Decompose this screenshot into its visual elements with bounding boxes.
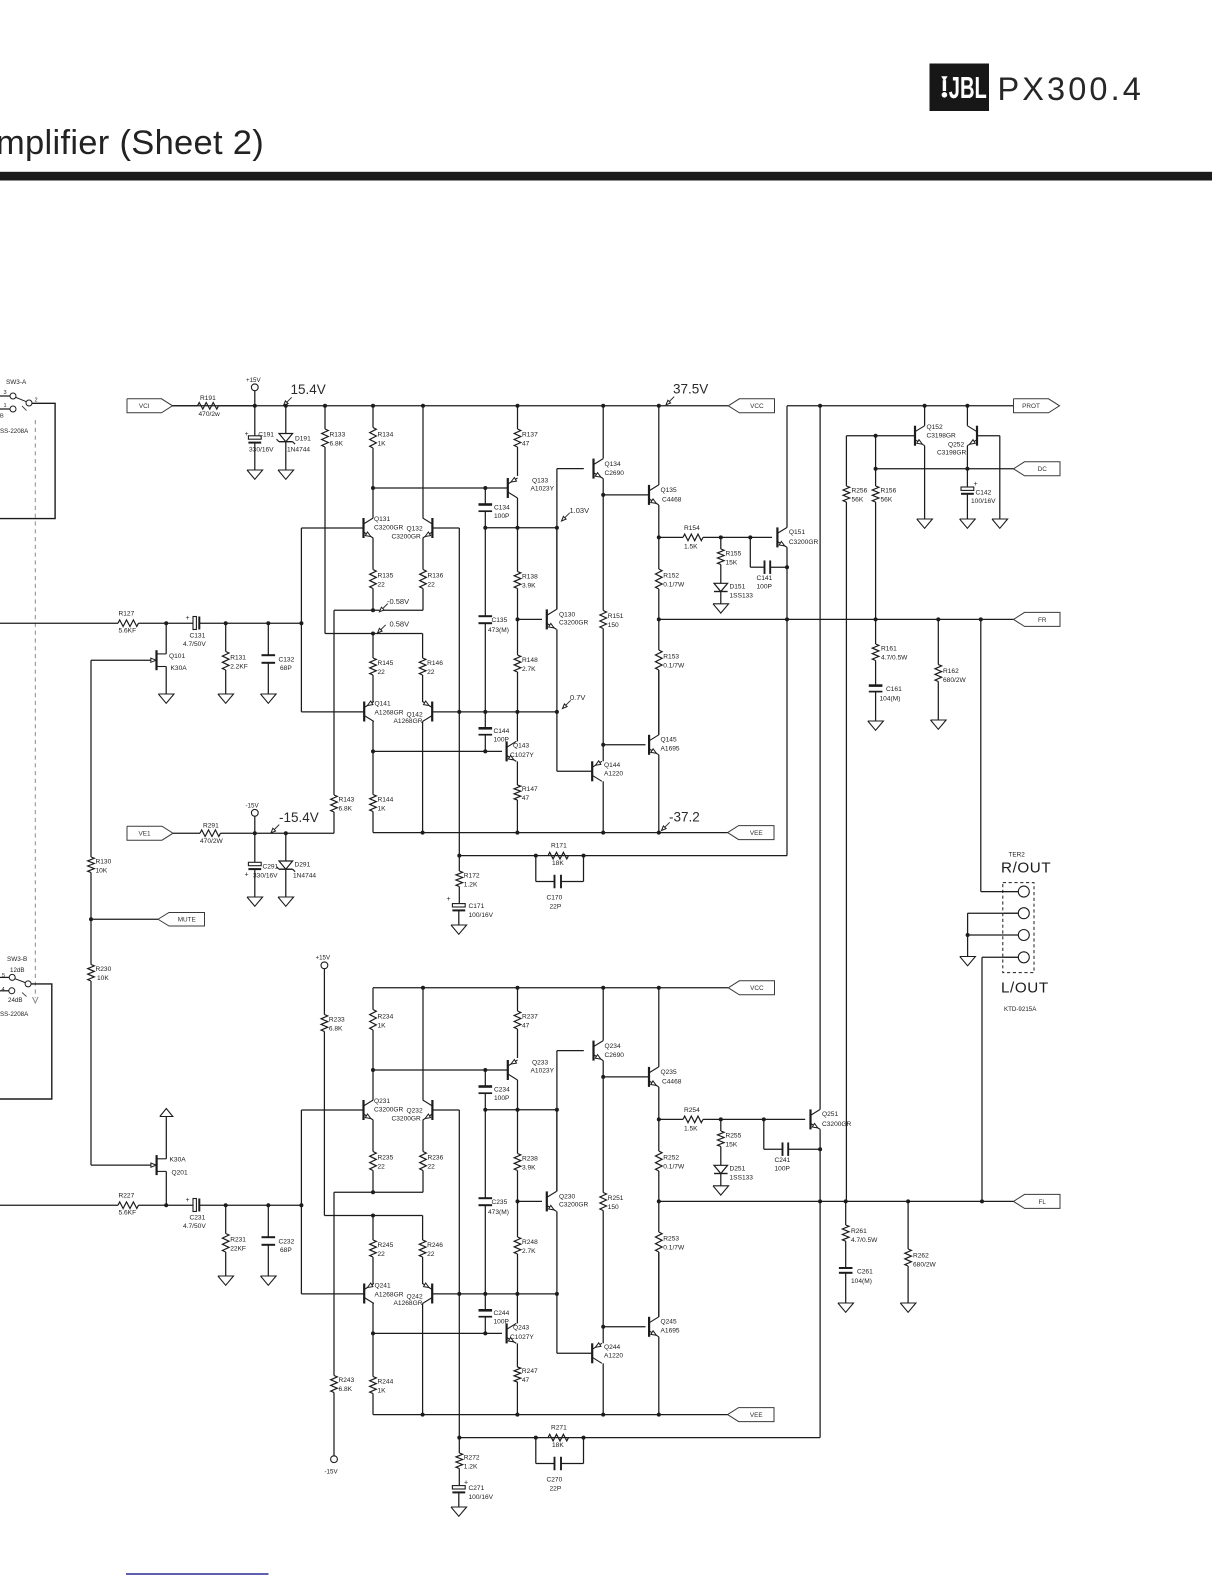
ground C261 xyxy=(838,1303,854,1312)
svg-text:+: + xyxy=(245,872,249,879)
svg-text:R227: R227 xyxy=(119,1193,135,1200)
svg-text:Q152: Q152 xyxy=(927,424,943,431)
wire Q152 collector xyxy=(924,406,926,426)
svg-text:D191: D191 xyxy=(295,436,311,443)
svg-text:+: + xyxy=(245,431,249,438)
svg-text:A1023Y: A1023Y xyxy=(531,1068,555,1075)
wire Q234 collector xyxy=(602,988,604,1041)
resistor R144 xyxy=(370,751,394,832)
capacitor C261 xyxy=(839,1268,873,1303)
svg-text:22: 22 xyxy=(428,582,436,589)
node Q132 collector at rail xyxy=(421,404,425,408)
wire base row mid xyxy=(432,711,557,713)
svg-text:DC: DC xyxy=(1038,466,1048,473)
wire Q135 collector xyxy=(658,406,660,485)
svg-text:Q144: Q144 xyxy=(604,762,620,769)
node Q245 emit at VEE xyxy=(657,1413,661,1417)
wire Q144 base xyxy=(557,770,592,772)
svg-text:R238: R238 xyxy=(522,1156,538,1163)
resistor R147 xyxy=(514,761,538,832)
svg-text:0.1/7W: 0.1/7W xyxy=(663,582,685,589)
svg-text:+15V: +15V xyxy=(246,377,261,384)
transistor Q235 xyxy=(649,1067,682,1087)
node C234 top xyxy=(483,1068,487,1072)
node Q141 collector / R144 xyxy=(371,749,375,753)
transistor Q230 xyxy=(547,1191,589,1211)
footer blue mark xyxy=(126,1573,269,1575)
svg-text:1: 1 xyxy=(4,403,7,409)
svg-text:R148: R148 xyxy=(522,657,538,664)
svg-text:C132: C132 xyxy=(279,657,295,664)
svg-text:1K: 1K xyxy=(378,806,387,813)
net DC arrow xyxy=(1014,462,1061,476)
svg-text:18K: 18K xyxy=(552,1442,564,1449)
svg-text:C144: C144 xyxy=(494,728,510,735)
svg-text:100/16V: 100/16V xyxy=(469,1494,494,1501)
node R248 bottom xyxy=(515,1292,519,1296)
wire emitter tie row xyxy=(334,1191,423,1193)
svg-text:VE1: VE1 xyxy=(138,831,151,838)
svg-text:1K: 1K xyxy=(378,1022,387,1029)
svg-text:C244: C244 xyxy=(494,1310,510,1317)
svg-text:47: 47 xyxy=(522,795,530,802)
node C244 top xyxy=(483,1292,487,1296)
svg-text:22: 22 xyxy=(378,1164,386,1171)
node R247 at VEE xyxy=(515,1413,519,1417)
svg-text:VEE: VEE xyxy=(750,1412,763,1419)
svg-text:R137: R137 xyxy=(522,432,538,439)
svg-text:47: 47 xyxy=(522,441,530,448)
capacitor C244 xyxy=(479,1294,510,1334)
net VE1 arrow xyxy=(127,826,173,840)
svg-text:47: 47 xyxy=(522,1377,530,1384)
svg-text:1.5K: 1.5K xyxy=(684,544,698,551)
resistor R130 xyxy=(88,660,112,919)
resistor R235 xyxy=(370,1120,394,1192)
arrow Q201 drain up xyxy=(160,1109,173,1117)
svg-text:C3200GR: C3200GR xyxy=(559,1202,589,1209)
node D291 top xyxy=(284,831,288,835)
resistor R244 xyxy=(370,1333,394,1414)
annotation -15.4V xyxy=(271,810,319,833)
resistor R131 xyxy=(222,623,247,694)
wire Q241 base xyxy=(301,1293,364,1295)
node Q241 collector / R244 xyxy=(371,1331,375,1335)
node C234 bottom xyxy=(483,1108,487,1112)
wire Q235 emitter xyxy=(658,1087,660,1120)
svg-text:680/2W: 680/2W xyxy=(913,1262,937,1269)
node output mid xyxy=(657,617,661,621)
wire Q230 emitter xyxy=(556,1211,558,1353)
JBL logo box xyxy=(930,64,990,112)
wire Q133 collector xyxy=(517,498,519,528)
svg-text:56K: 56K xyxy=(852,497,864,504)
svg-text:C271: C271 xyxy=(469,1485,485,1492)
wire to Q234 base xyxy=(556,1051,558,1192)
node Q233 coll / row xyxy=(516,1108,520,1112)
resistor R143 xyxy=(331,795,355,833)
wire Q244 base xyxy=(557,1352,592,1354)
wire Q244 collector xyxy=(602,1363,604,1414)
svg-text:-15V: -15V xyxy=(325,1469,339,1476)
node R234 bottom / Q231 collector xyxy=(371,1068,375,1072)
svg-text:2.7K: 2.7K xyxy=(522,666,536,673)
node Q251 emit at output xyxy=(818,1199,822,1203)
capacitor C170 xyxy=(536,856,584,911)
svg-text:R243: R243 xyxy=(339,1377,355,1384)
wire base column xyxy=(300,1110,302,1294)
node R156 top xyxy=(874,434,878,438)
wire Q235 collector xyxy=(658,988,660,1067)
resistor R237 xyxy=(514,988,538,1058)
svg-text:R191: R191 xyxy=(200,395,216,402)
svg-text:A1695: A1695 xyxy=(661,746,680,753)
svg-text:5: 5 xyxy=(2,973,5,979)
svg-text:Q243: Q243 xyxy=(513,1325,529,1332)
header rule bar xyxy=(0,172,1212,181)
svg-text:R291: R291 xyxy=(203,823,219,830)
resistor R138 xyxy=(514,528,538,620)
node VAS row right xyxy=(555,526,559,530)
text SS-2208A (SW3-A) xyxy=(0,428,29,435)
svg-text:R234: R234 xyxy=(378,1013,394,1020)
connector pin 3 xyxy=(1004,930,1029,941)
svg-text:R253: R253 xyxy=(663,1236,679,1243)
node Q144 emitter / R151 xyxy=(601,743,605,747)
svg-text:15K: 15K xyxy=(726,1141,738,1148)
wire D291 to gnd xyxy=(285,869,287,897)
text KTD-9215A xyxy=(1004,1006,1037,1013)
svg-text:A1268GR: A1268GR xyxy=(394,718,423,725)
node Q242 collector at VEE xyxy=(421,1413,425,1417)
ground C132 xyxy=(261,694,277,703)
svg-text:470/2W: 470/2W xyxy=(200,838,224,845)
capacitor C144 xyxy=(479,712,510,752)
svg-text:A1023Y: A1023Y xyxy=(531,486,555,493)
svg-text:C1027Y: C1027Y xyxy=(510,752,534,759)
resistor R152 xyxy=(656,537,685,619)
wire Q141 collector xyxy=(372,722,374,752)
svg-text:SS-2208A: SS-2208A xyxy=(0,428,29,435)
svg-text:C142: C142 xyxy=(976,490,992,497)
resistor R156 xyxy=(872,436,896,620)
svg-text:K30A: K30A xyxy=(170,1157,187,1164)
svg-text:Q245: Q245 xyxy=(661,1319,677,1326)
ground D291 xyxy=(278,897,294,906)
ground D191 xyxy=(278,470,294,479)
node Q234 coll at rail xyxy=(601,986,605,990)
node C141 left top xyxy=(748,535,752,539)
svg-text:1.2K: 1.2K xyxy=(464,881,478,888)
svg-text:D291: D291 xyxy=(295,862,311,869)
svg-text:R248: R248 xyxy=(522,1239,538,1246)
capacitor C132 xyxy=(262,623,295,694)
svg-text:C3200GR: C3200GR xyxy=(392,534,422,541)
zener D291 xyxy=(277,861,317,880)
node Q145 emit at VEE xyxy=(657,831,661,835)
svg-text:R155: R155 xyxy=(726,550,742,557)
wire Q134 base h xyxy=(557,468,584,470)
node C270 right xyxy=(582,1436,586,1440)
capacitor C241 xyxy=(764,1119,820,1172)
svg-text:Q234: Q234 xyxy=(605,1043,621,1050)
net FR arrow xyxy=(1014,612,1061,626)
transistor Q142 xyxy=(394,701,433,725)
node R134 top xyxy=(371,404,375,408)
transistor Q251 xyxy=(811,1109,852,1129)
svg-text:C4468: C4468 xyxy=(662,497,682,504)
transistor Q242 xyxy=(394,1283,433,1307)
wire Q230 base xyxy=(518,1200,543,1202)
svg-text:R172: R172 xyxy=(464,872,480,879)
resistor R137 xyxy=(514,406,538,476)
svg-text:R130: R130 xyxy=(96,859,112,866)
switch SW3-A xyxy=(0,379,38,420)
svg-text:Q251: Q251 xyxy=(822,1111,838,1118)
transistor Q244 xyxy=(592,1343,623,1364)
text SS-2208A (SW3-B) xyxy=(0,1011,29,1018)
svg-text:R245: R245 xyxy=(378,1242,394,1249)
ground C291 xyxy=(247,897,263,906)
wire Q151 collector xyxy=(786,406,788,528)
transistor Q145 xyxy=(649,735,680,755)
capacitor C235 xyxy=(479,1110,509,1294)
box: left circuit block 2 (partial) xyxy=(0,984,52,1099)
svg-text:JBL: JBL xyxy=(949,72,987,105)
svg-text:R162: R162 xyxy=(943,668,959,675)
svg-text:10K: 10K xyxy=(97,975,109,982)
svg-text:6.8K: 6.8K xyxy=(329,1026,343,1033)
resistor R133 xyxy=(322,406,346,634)
wire VAS row xyxy=(485,1109,557,1111)
resistor R146 xyxy=(419,634,443,703)
ground R162 xyxy=(931,720,947,729)
transistor Q245 xyxy=(649,1317,680,1337)
svg-text:L/OUT: L/OUT xyxy=(1001,980,1049,997)
capacitor C231 xyxy=(183,1197,206,1230)
wire Q101 gate xyxy=(91,659,151,661)
svg-text:R236: R236 xyxy=(428,1155,444,1162)
resistor R191 xyxy=(173,395,255,418)
node C241 right xyxy=(818,1147,822,1151)
wire Q251 emitter xyxy=(819,1129,821,1437)
svg-text:R138: R138 xyxy=(522,574,538,581)
wire pin4 to FL xyxy=(981,957,983,1201)
svg-text:Q131: Q131 xyxy=(374,516,390,523)
svg-text:R230: R230 xyxy=(96,966,112,973)
node C270 left xyxy=(534,1436,538,1440)
svg-text:C135: C135 xyxy=(492,617,508,624)
node R137 top xyxy=(516,404,520,408)
resistor R153 xyxy=(656,619,685,734)
node Q232 collector at rail xyxy=(421,986,425,990)
svg-text:22P: 22P xyxy=(550,1486,562,1493)
svg-text:1.5K: 1.5K xyxy=(684,1126,698,1133)
node input to bases xyxy=(299,621,303,625)
wire to Q134 base xyxy=(556,469,558,610)
svg-text:R136: R136 xyxy=(428,573,444,580)
node R148 bottom xyxy=(515,710,519,714)
svg-text:R146: R146 xyxy=(427,660,443,667)
svg-text:A1268GR: A1268GR xyxy=(375,1292,404,1299)
wire Q145 emitter xyxy=(658,755,660,833)
node FR pick xyxy=(979,617,983,621)
wire Q232 base to feedback column xyxy=(432,1109,459,1111)
svg-text:PROT: PROT xyxy=(1022,403,1040,410)
node R155 top xyxy=(719,535,723,539)
svg-text:5.6KF: 5.6KF xyxy=(119,1210,137,1217)
node R262 tap at FL xyxy=(906,1199,910,1203)
net MUTE arrow xyxy=(158,913,205,927)
wire Q235 base row xyxy=(603,1076,649,1078)
ground C171 xyxy=(451,925,467,934)
wire tail to R143 xyxy=(333,610,335,795)
resistor R247 xyxy=(514,1343,538,1414)
svg-text:Q235: Q235 xyxy=(661,1069,677,1076)
resistor R151 xyxy=(600,495,624,745)
svg-text:3.9K: 3.9K xyxy=(522,583,536,590)
node input to bases xyxy=(299,1203,303,1207)
node Q135 coll at rail xyxy=(657,404,661,408)
svg-text:R145: R145 xyxy=(378,660,394,667)
wire D251 to gnd xyxy=(720,1174,722,1186)
svg-text:22: 22 xyxy=(378,1251,386,1258)
node 0.7V xyxy=(555,710,559,714)
wire bias row xyxy=(325,633,423,635)
svg-text:R256: R256 xyxy=(852,488,868,495)
svg-text:C3200GR: C3200GR xyxy=(559,620,589,627)
node R156 at DC row xyxy=(874,467,878,471)
wire Q132 collector xyxy=(422,406,424,518)
svg-text:C3200GR: C3200GR xyxy=(789,539,819,546)
resistor R251 xyxy=(600,1077,624,1327)
svg-text:Q151: Q151 xyxy=(789,529,805,536)
node Q133 coll / row xyxy=(516,526,520,530)
transistor Q132 xyxy=(392,518,433,541)
capacitor C171 xyxy=(447,896,494,925)
transistor Q133 xyxy=(508,478,555,499)
svg-text:C3198GR: C3198GR xyxy=(927,433,957,440)
svg-text:Q231: Q231 xyxy=(374,1098,390,1105)
node C134 top xyxy=(483,486,487,490)
ground C232 xyxy=(261,1276,277,1285)
wire Q201 source xyxy=(165,1171,167,1204)
svg-text:100P: 100P xyxy=(494,513,510,520)
wire base column xyxy=(300,528,302,712)
capacitor C135 xyxy=(479,528,509,712)
svg-text:VEE: VEE xyxy=(750,830,763,837)
svg-text:R247: R247 xyxy=(522,1368,538,1375)
svg-text:C161: C161 xyxy=(886,686,902,693)
node D191 top xyxy=(284,404,288,408)
wire pin1 horizontal xyxy=(981,891,1019,893)
resistor R262 xyxy=(905,1201,937,1303)
svg-text:D151: D151 xyxy=(730,584,746,591)
ground R262 xyxy=(900,1303,916,1312)
svg-text:Q133: Q133 xyxy=(532,478,548,485)
node feedback at Q142 base xyxy=(457,710,461,714)
capacitor C234 xyxy=(479,1070,511,1110)
wire pin2 down xyxy=(967,913,969,956)
svg-text:R231: R231 xyxy=(230,1236,246,1243)
wire VAS row xyxy=(485,527,557,529)
svg-text:1.2K: 1.2K xyxy=(464,1463,478,1470)
resistor R155 xyxy=(718,537,742,583)
wire Q230 collector xyxy=(556,1110,558,1192)
wire Q142 collector to VEE xyxy=(422,722,424,833)
svg-text:R161: R161 xyxy=(881,646,897,653)
svg-text:C3200GR: C3200GR xyxy=(822,1121,852,1128)
capacitor C191 xyxy=(245,406,275,470)
svg-text:R154: R154 xyxy=(684,525,700,532)
wire PROT row xyxy=(787,405,1014,407)
resistor R254 xyxy=(659,1107,805,1133)
node R162 tap at FR xyxy=(936,617,940,621)
node Q235 emitter / R254 xyxy=(657,1117,661,1121)
node R272 top xyxy=(457,1436,461,1440)
svg-text:0.1/7W: 0.1/7W xyxy=(663,663,685,670)
annotation -0.58V xyxy=(380,597,410,612)
capacitor C141 xyxy=(750,537,787,590)
resistor R256 xyxy=(843,436,867,1202)
svg-text:C232: C232 xyxy=(279,1239,295,1246)
transistor Q252 xyxy=(937,426,977,457)
net VEE arrow (1) xyxy=(728,826,774,840)
svg-text:VCC: VCC xyxy=(750,985,764,992)
wire Q145 base row xyxy=(603,744,645,746)
node +15V tap xyxy=(253,404,257,408)
svg-text:22: 22 xyxy=(378,669,386,676)
node R147 at VEE xyxy=(515,831,519,835)
svg-text:+: + xyxy=(974,481,978,488)
resistor R245 xyxy=(370,1216,394,1285)
node pin3 gnd tie xyxy=(966,933,970,937)
wire Q151 emitter xyxy=(786,547,788,855)
svg-text:473(M): 473(M) xyxy=(488,627,509,634)
node C142 top xyxy=(965,467,969,471)
resistor R248 xyxy=(514,1201,538,1294)
svg-text:SS-2208A: SS-2208A xyxy=(0,1011,29,1018)
capacitor C271 xyxy=(452,1480,493,1508)
node bias row / R245 xyxy=(371,1214,375,1218)
node Q244 emitter / R251 xyxy=(601,1325,605,1329)
annotation -37.2 xyxy=(662,810,700,831)
net VCC arrow (2) xyxy=(728,981,774,995)
svg-text:+: + xyxy=(464,1480,468,1487)
wire 2 supply rail xyxy=(373,987,728,989)
resistor R154 xyxy=(659,525,772,551)
svg-text:R261: R261 xyxy=(851,1228,867,1235)
resistor R145 xyxy=(370,634,394,703)
zener D191 xyxy=(277,434,312,454)
svg-text:18K: 18K xyxy=(552,860,564,867)
svg-text:A1695: A1695 xyxy=(661,1328,680,1335)
capacitor C131 xyxy=(183,615,206,648)
svg-text:FL: FL xyxy=(1039,1199,1047,1206)
wire Q131 collector xyxy=(372,488,374,518)
svg-text:6.8K: 6.8K xyxy=(339,806,353,813)
transistor Q141 xyxy=(364,701,403,722)
svg-text:12dB: 12dB xyxy=(10,967,24,974)
svg-text:C1027Y: C1027Y xyxy=(510,1334,534,1341)
svg-text:R244: R244 xyxy=(378,1379,394,1386)
wire base row mid xyxy=(432,1293,557,1295)
node R134 bottom / Q131 collector xyxy=(371,486,375,490)
svg-text:-0.58V: -0.58V xyxy=(387,597,409,606)
wire Q130 collector xyxy=(556,528,558,610)
node emitter tie xyxy=(371,608,375,612)
ground connector xyxy=(960,957,976,966)
